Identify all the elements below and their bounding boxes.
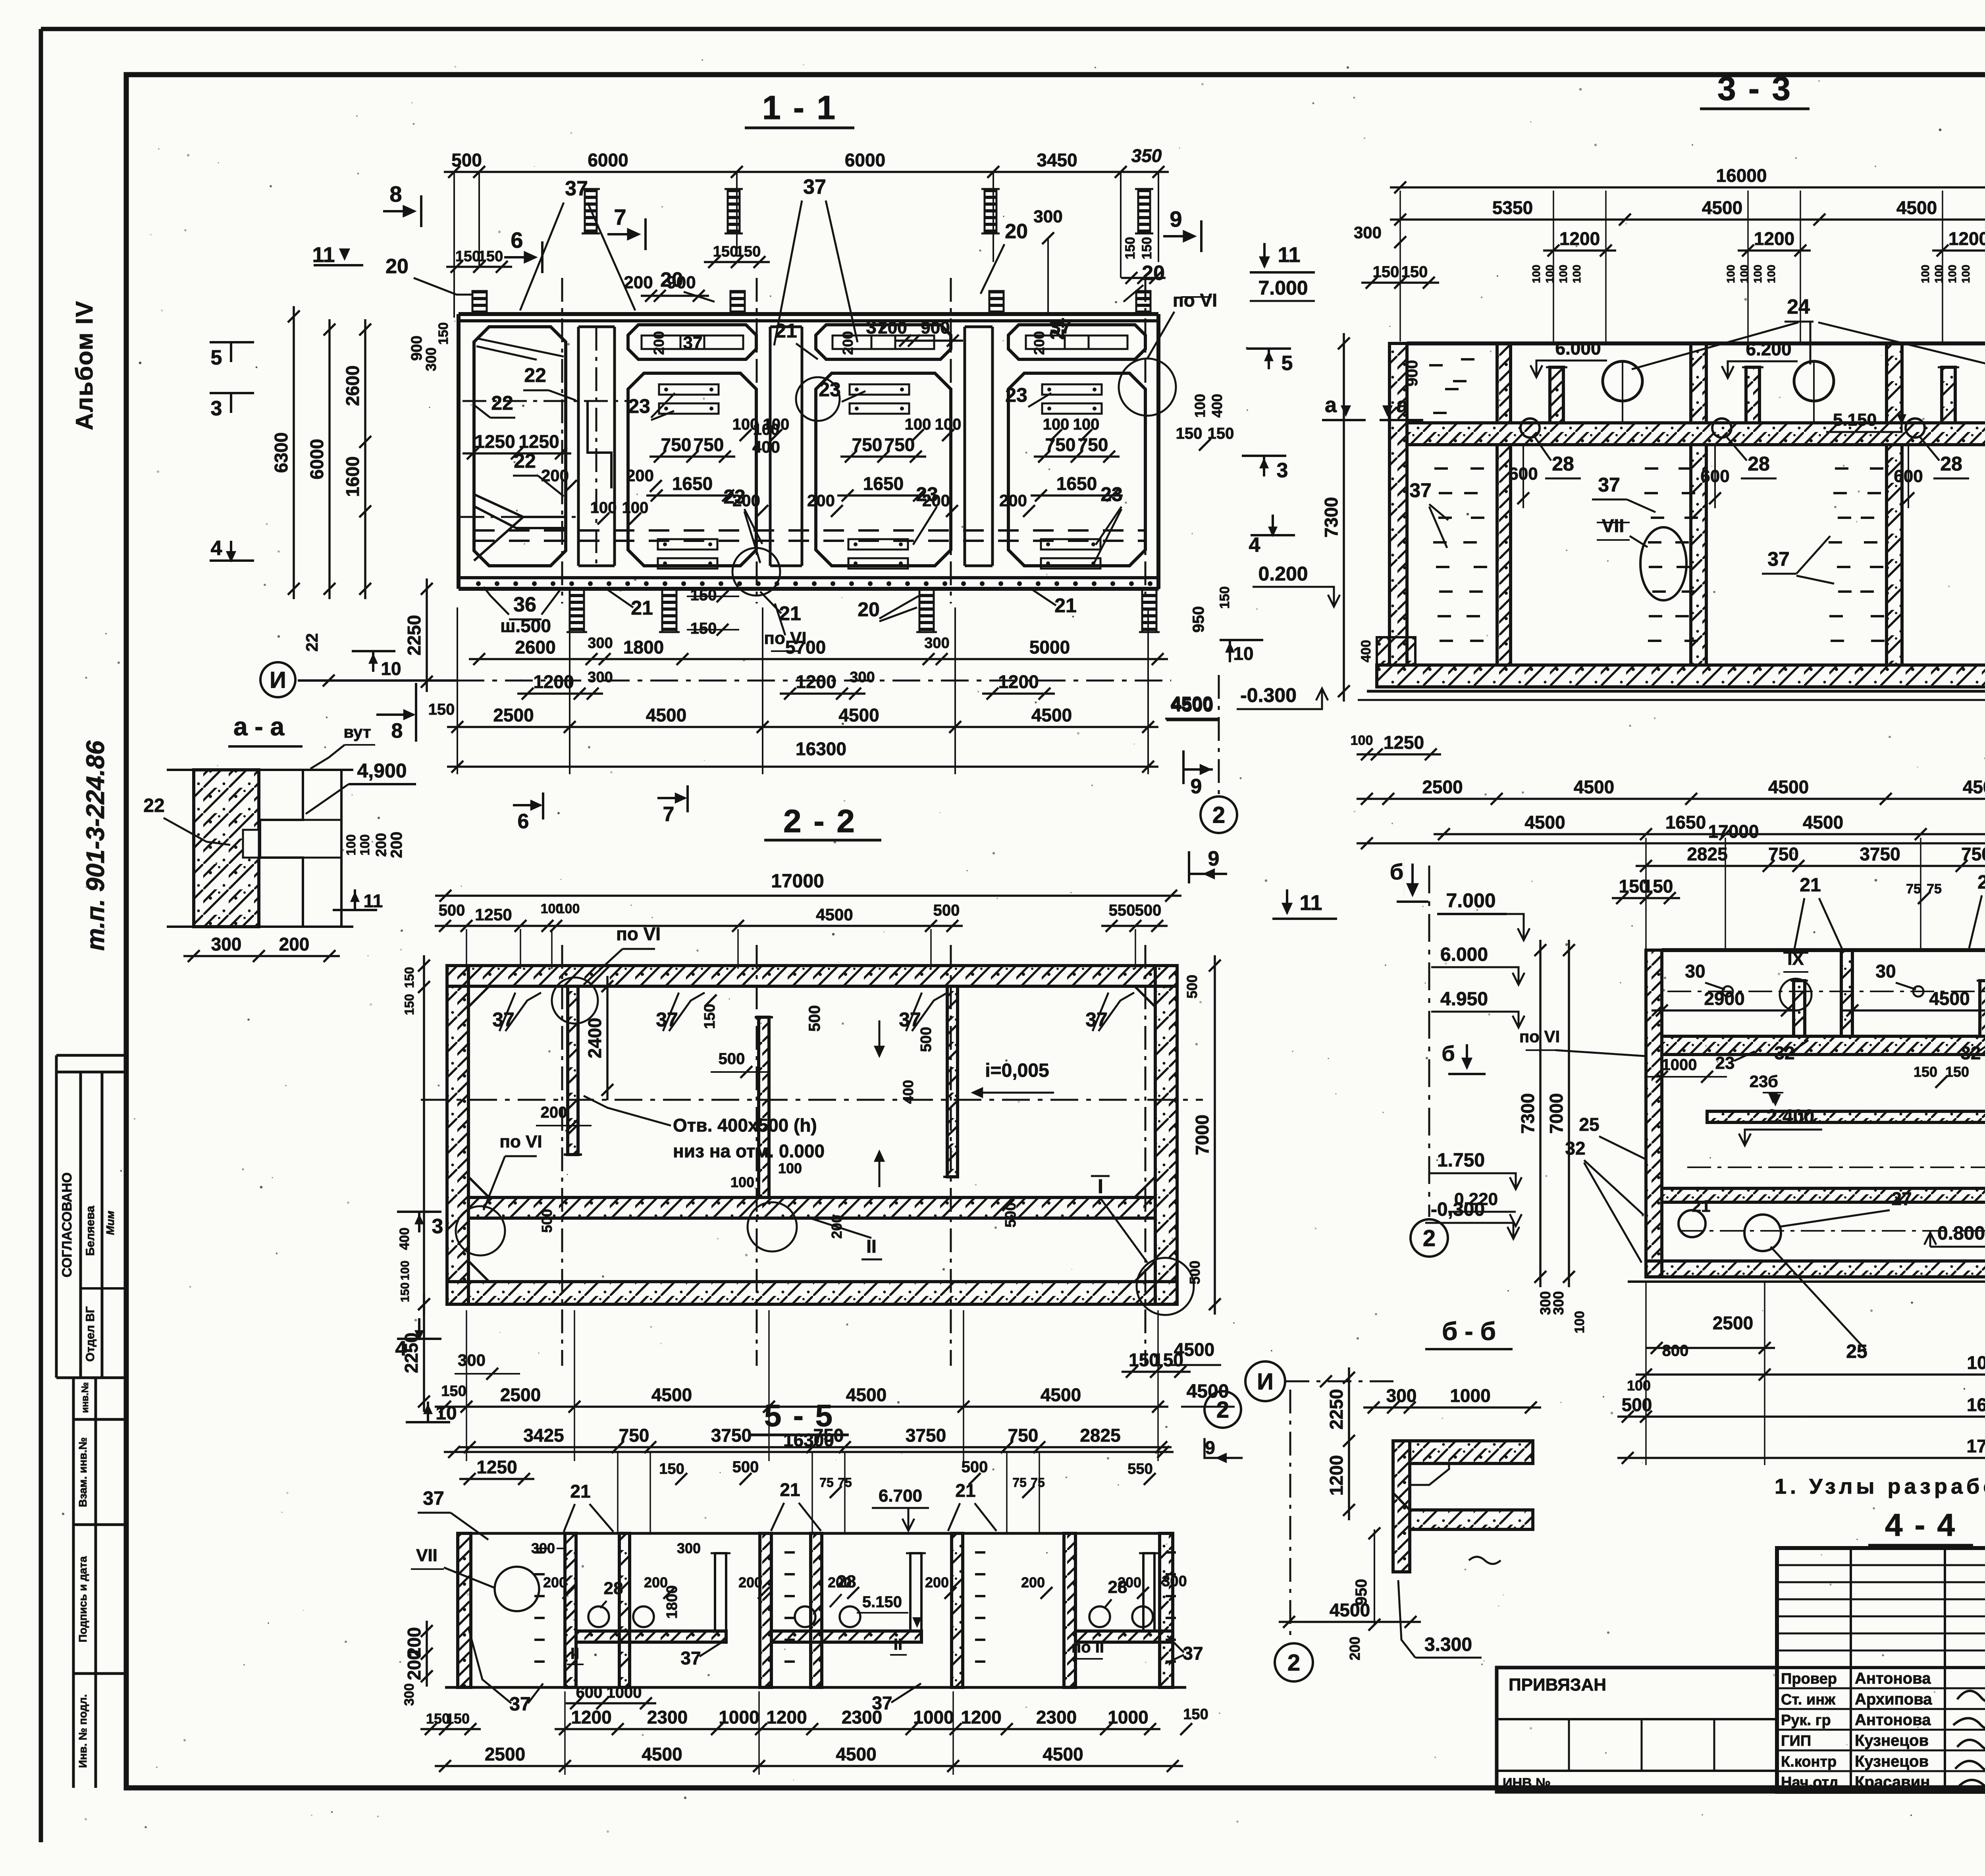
svg-text:200: 200	[925, 1574, 949, 1591]
svg-text:2825: 2825	[1687, 844, 1727, 864]
svg-text:7: 7	[663, 803, 675, 826]
svg-text:ГИП: ГИП	[1781, 1733, 1811, 1749]
section a-a formwork profile	[260, 770, 303, 927]
svg-text:7.000: 7.000	[1258, 277, 1308, 299]
section 4-4 lower circles	[1679, 1210, 1706, 1237]
svg-text:1200: 1200	[1559, 228, 1600, 249]
svg-text:550: 550	[1127, 1461, 1152, 1477]
svg-text:а - а: а - а	[233, 712, 284, 741]
svg-text:б: б	[1442, 1042, 1455, 1066]
svg-text:6: 6	[511, 228, 523, 253]
compartment C1 octagon	[474, 327, 566, 566]
dim 4500 below	[1279, 1621, 1421, 1623]
svg-text:30: 30	[1875, 961, 1896, 981]
mark 9 lowest	[1188, 851, 1190, 883]
mid dims 750 1650 per compartment	[649, 455, 735, 458]
svg-text:17000: 17000	[1708, 821, 1759, 842]
svg-text:400: 400	[397, 1228, 412, 1250]
section 3-3 upper stubs	[1550, 367, 1563, 423]
svg-text:100: 100	[1765, 265, 1777, 283]
svg-text:100: 100	[1043, 416, 1070, 433]
svg-text:300: 300	[458, 1351, 486, 1369]
svg-text:Кузнецов: Кузнецов	[1855, 1753, 1929, 1770]
svg-text:6.000: 6.000	[1555, 338, 1601, 359]
svg-text:21: 21	[631, 597, 653, 619]
section 2-2 bottom right dims	[1122, 1371, 1191, 1373]
svg-text:1200: 1200	[533, 671, 574, 692]
svg-text:300: 300	[423, 347, 439, 371]
section 5-5 upstand walls	[715, 1553, 726, 1631]
svg-text:150: 150	[1139, 237, 1154, 260]
svg-text:21: 21	[775, 320, 797, 342]
svg-text:низ на отм. 0.000: низ на отм. 0.000	[673, 1141, 825, 1161]
svg-text:вут: вут	[343, 723, 371, 741]
axis bubble 2 left of 4-4	[1411, 1219, 1448, 1257]
svg-text:200: 200	[651, 331, 667, 355]
svg-text:150: 150	[1401, 263, 1428, 281]
svg-text:1000: 1000	[913, 1707, 954, 1728]
б section marks	[1463, 1059, 1471, 1068]
section 4-4 IX circle	[1780, 979, 1812, 1010]
section 4-4 left vdims	[1539, 940, 1542, 1287]
attachment box	[1497, 1668, 1777, 1792]
svg-text:2250: 2250	[404, 615, 424, 656]
svg-text:300: 300	[677, 1540, 701, 1556]
svg-text:1. Узлы разработаны на л: 1. Узлы разработаны на листе КЖ-17	[1775, 1475, 1985, 1498]
svg-text:4,900: 4,900	[357, 760, 407, 782]
svg-text:1800: 1800	[623, 637, 664, 657]
svg-text:1250: 1250	[474, 431, 515, 452]
left wall footing	[1377, 637, 1415, 665]
svg-text:300: 300	[1162, 1573, 1187, 1590]
svg-text:8: 8	[391, 719, 403, 742]
section 2-2 walls	[447, 966, 468, 1304]
section 3-3 water dashes lower chambers	[1434, 467, 1448, 470]
svg-text:3: 3	[211, 397, 222, 420]
svg-text:22: 22	[524, 364, 546, 386]
water level dashes	[474, 529, 1145, 532]
svg-text:150: 150	[441, 1383, 466, 1400]
svg-text:1200: 1200	[571, 1707, 611, 1728]
svg-text:600: 600	[576, 1684, 603, 1701]
svg-text:4: 4	[211, 537, 222, 560]
section b-b dims	[1363, 1406, 1541, 1409]
svg-text:1.750: 1.750	[1437, 1150, 1485, 1171]
svg-text:Ст. инж: Ст. инж	[1781, 1691, 1836, 1708]
svg-text:300: 300	[1386, 1385, 1417, 1406]
section 2-2 right vdims	[1214, 955, 1216, 1315]
svg-text:37: 37	[1598, 474, 1620, 496]
svg-text:500: 500	[1135, 902, 1162, 919]
svg-text:100: 100	[1571, 265, 1583, 283]
svg-text:23: 23	[1100, 483, 1123, 505]
svg-text:-0.300: -0.300	[1240, 684, 1297, 706]
svg-text:150: 150	[1914, 1064, 1937, 1080]
svg-text:23: 23	[1750, 1072, 1768, 1091]
svg-text:2500: 2500	[1422, 777, 1463, 797]
section 5-5 walls	[458, 1533, 471, 1687]
top edge inserts	[472, 291, 487, 314]
section 3-3 mid slab	[1407, 423, 1985, 445]
svg-text:2 - 2: 2 - 2	[783, 803, 856, 839]
section 4-4 upper chamber floor	[1662, 1036, 1985, 1055]
section a-a notch	[243, 830, 259, 858]
svg-text:150: 150	[428, 701, 455, 718]
svg-text:100: 100	[1192, 394, 1208, 418]
svg-text:2: 2	[1216, 1397, 1229, 1423]
section 2-2 inner corner chamfers	[468, 986, 489, 1007]
section 3-3 top dims	[1390, 186, 1985, 189]
compartment C2 trough	[628, 325, 756, 359]
svg-text:200: 200	[1347, 1637, 1363, 1660]
svg-text:1200: 1200	[1948, 228, 1985, 249]
svg-text:500: 500	[962, 1458, 988, 1476]
svg-text:а: а	[1325, 393, 1337, 417]
svg-text:4500: 4500	[1574, 777, 1614, 797]
svg-text:4500: 4500	[646, 705, 686, 725]
svg-text:21: 21	[1692, 1197, 1711, 1215]
section 3-3 left marks	[1342, 406, 1350, 415]
title block upper grid	[1777, 1564, 1985, 1566]
svg-text:150: 150	[736, 243, 761, 260]
svg-text:10: 10	[381, 658, 401, 679]
compartment C4 room	[1008, 373, 1145, 566]
svg-text:9: 9	[1208, 847, 1220, 870]
svg-text:3425: 3425	[523, 1425, 564, 1446]
svg-text:100: 100	[1572, 1311, 1587, 1334]
svg-text:б: б	[1768, 1072, 1778, 1091]
svg-text:200: 200	[626, 466, 654, 485]
svg-text:100: 100	[1557, 265, 1569, 283]
svg-text:100: 100	[730, 1174, 754, 1190]
svg-text:6000: 6000	[845, 150, 885, 170]
mark 9 lower	[1182, 750, 1185, 784]
svg-text:11: 11	[1299, 891, 1322, 915]
svg-text:0.200: 0.200	[1258, 563, 1308, 585]
svg-text:20: 20	[858, 598, 880, 621]
svg-text:200: 200	[541, 466, 569, 485]
svg-text:100: 100	[1351, 733, 1373, 748]
signature squiggles	[1957, 1686, 1985, 1702]
svg-text:21: 21	[1054, 594, 1077, 617]
svg-text:по VI: по VI	[1173, 290, 1217, 310]
svg-text:20: 20	[1005, 220, 1028, 243]
svg-text:21: 21	[779, 602, 801, 625]
svg-text:1 - 1: 1 - 1	[762, 89, 837, 126]
svg-text:500: 500	[1187, 1261, 1203, 1284]
svg-text:по II: по II	[1072, 1639, 1104, 1656]
svg-text:100: 100	[1627, 1377, 1651, 1394]
svg-text:Красавин: Красавин	[1855, 1774, 1930, 1791]
svg-text:4500: 4500	[846, 1384, 887, 1405]
section b-b wall	[1393, 1441, 1410, 1572]
compartment C2 room	[628, 373, 756, 566]
svg-text:300: 300	[1354, 223, 1382, 242]
svg-text:4500: 4500	[816, 905, 853, 924]
svg-text:5350: 5350	[1492, 197, 1533, 218]
section 2-2 axes	[561, 945, 563, 1366]
svg-text:100: 100	[778, 1160, 802, 1176]
svg-text:300: 300	[402, 1683, 417, 1706]
svg-text:8: 8	[389, 181, 402, 206]
bottom dimension chains	[469, 658, 1168, 660]
svg-text:100: 100	[905, 416, 931, 433]
svg-text:Рук. гр: Рук. гр	[1781, 1712, 1831, 1729]
section 4-4 bottom slab	[1646, 1261, 1985, 1277]
svg-text:2.400: 2.400	[1767, 1106, 1814, 1127]
svg-text:0,220: 0,220	[1454, 1190, 1498, 1209]
elevation strip between 1-1 and 3-3	[1163, 235, 1193, 237]
svg-text:500: 500	[933, 902, 960, 919]
svg-text:400: 400	[1209, 394, 1225, 418]
svg-text:4500: 4500	[1896, 197, 1937, 218]
svg-text:Кузнецов: Кузнецов	[1855, 1732, 1929, 1749]
svg-text:4500: 4500	[642, 1744, 682, 1764]
svg-text:150: 150	[436, 322, 451, 345]
section 3-3 VII oval	[1640, 527, 1686, 600]
svg-text:750: 750	[1961, 844, 1985, 864]
svg-text:300: 300	[1550, 1291, 1567, 1315]
svg-text:28: 28	[1552, 453, 1574, 475]
svg-text:4500: 4500	[1702, 197, 1742, 218]
svg-text:21: 21	[780, 1479, 800, 1500]
section 4-4 body walls	[1646, 950, 1662, 1277]
svg-text:СОГЛАСОВАНО: СОГЛАСОВАНО	[60, 1172, 75, 1278]
svg-text:22: 22	[303, 633, 321, 652]
svg-text:5: 5	[211, 346, 222, 369]
section 3-3 small circles 28	[1521, 418, 1540, 438]
compartment C4 trough	[1008, 325, 1145, 359]
mounting plates	[659, 384, 719, 395]
svg-text:100: 100	[557, 901, 580, 916]
svg-text:1650: 1650	[672, 473, 713, 494]
bottom inserts	[570, 588, 584, 632]
svg-text:1000: 1000	[607, 1684, 642, 1701]
svg-text:300: 300	[924, 635, 949, 652]
section b-b chamfer	[1410, 1463, 1449, 1485]
svg-text:7000: 7000	[1192, 1114, 1212, 1155]
svg-text:Инв. № подл.: Инв. № подл.	[77, 1694, 89, 1768]
svg-text:Взам. инв.№: Взам. инв.№	[77, 1437, 89, 1507]
svg-text:150: 150	[455, 248, 480, 265]
svg-text:11: 11	[312, 243, 335, 267]
mid dims 1250	[463, 452, 571, 455]
svg-text:25: 25	[1579, 1114, 1599, 1135]
svg-text:Отдел ВГ: Отдел ВГ	[84, 1306, 97, 1361]
svg-text:2300: 2300	[1036, 1707, 1077, 1728]
svg-text:75: 75	[819, 1475, 834, 1490]
section b-b lower slab	[1410, 1510, 1533, 1529]
svg-text:300: 300	[531, 1540, 555, 1556]
svg-text:1200: 1200	[796, 671, 836, 692]
svg-text:ПРИВЯЗАН: ПРИВЯЗАН	[1509, 1675, 1606, 1695]
section 1-1 body outline	[459, 312, 1158, 316]
section 4-4 middle slab	[1707, 1111, 1985, 1122]
channel cell	[577, 327, 580, 566]
mark 4	[1251, 534, 1295, 536]
svg-text:300: 300	[850, 669, 875, 686]
svg-text:32: 32	[1774, 1043, 1794, 1063]
svg-text:500: 500	[451, 150, 482, 170]
svg-text:400: 400	[900, 1080, 916, 1104]
svg-text:9: 9	[1205, 1437, 1215, 1458]
svg-text:150: 150	[713, 243, 738, 260]
section a-a mark 11	[333, 909, 377, 911]
svg-text:37: 37	[1183, 1643, 1203, 1664]
svg-text:200: 200	[279, 934, 310, 954]
svg-text:150: 150	[402, 967, 416, 988]
svg-text:16300: 16300	[796, 738, 846, 759]
svg-text:21: 21	[1977, 872, 1985, 893]
svg-text:7.000: 7.000	[1446, 889, 1495, 912]
section 1-1 left vertical dims	[293, 306, 295, 599]
section 2-2 left marks	[397, 1211, 441, 1213]
svg-text:2600: 2600	[515, 637, 555, 657]
section a-a wall	[194, 770, 259, 927]
svg-text:200: 200	[404, 1650, 424, 1680]
section 5-5 floor slabs	[576, 1631, 726, 1642]
section 5-5 28 circles	[588, 1606, 609, 1627]
svg-text:20: 20	[1142, 262, 1165, 285]
svg-text:по VI: по VI	[1519, 1027, 1560, 1046]
svg-text:4500: 4500	[836, 1744, 876, 1764]
axis dashdot through C1	[463, 400, 631, 402]
svg-text:150: 150	[690, 620, 717, 637]
svg-text:2500: 2500	[500, 1384, 541, 1405]
svg-text:200: 200	[541, 1104, 567, 1121]
svg-text:7300: 7300	[1321, 497, 1341, 538]
svg-text:4500: 4500	[1524, 812, 1565, 833]
svg-text:4500: 4500	[1043, 1744, 1083, 1764]
svg-text:300: 300	[588, 669, 613, 686]
svg-text:37: 37	[680, 1648, 701, 1668]
svg-text:1200: 1200	[766, 1707, 807, 1728]
svg-text:500: 500	[918, 1027, 935, 1052]
section cut marks top	[383, 210, 412, 212]
section 2-2 stubs	[568, 986, 578, 1155]
svg-text:4500: 4500	[651, 1384, 692, 1405]
svg-text:500: 500	[732, 1458, 759, 1476]
svg-text:200: 200	[1021, 1574, 1045, 1591]
svg-text:750: 750	[852, 434, 883, 455]
svg-text:200: 200	[1031, 331, 1047, 355]
svg-text:150: 150	[399, 1282, 412, 1302]
svg-text:3750: 3750	[906, 1425, 946, 1446]
svg-text:150: 150	[1945, 1064, 1969, 1080]
section 5-5 left dims	[426, 1621, 428, 1687]
svg-text:200: 200	[624, 273, 653, 292]
svg-text:25: 25	[1846, 1341, 1867, 1362]
svg-text:200: 200	[388, 832, 405, 858]
svg-text:17000: 17000	[771, 871, 824, 892]
compartment C3 room	[816, 373, 951, 566]
svg-text:4500: 4500	[1963, 777, 1985, 797]
svg-text:3 - 3: 3 - 3	[1717, 70, 1792, 107]
svg-text:200: 200	[807, 491, 835, 510]
svg-text:150: 150	[701, 1004, 718, 1029]
section 3-3 water dashes upper	[1429, 364, 1443, 366]
svg-text:1650: 1650	[1056, 473, 1097, 494]
axis И bubble near b-b	[1245, 1361, 1285, 1401]
svg-text:100: 100	[590, 499, 617, 517]
svg-text:б - б: б - б	[1442, 1317, 1496, 1346]
svg-text:4500: 4500	[1031, 705, 1072, 725]
svg-text:750: 750	[813, 1425, 844, 1446]
svg-text:100: 100	[344, 834, 358, 855]
svg-text:100: 100	[1725, 265, 1737, 283]
svg-text:11: 11	[1278, 243, 1300, 267]
svg-text:4500: 4500	[838, 705, 879, 725]
left section marks 5 3 4	[210, 341, 254, 343]
svg-text:VII: VII	[416, 1546, 437, 1565]
svg-text:1250: 1250	[475, 905, 512, 924]
svg-text:6000: 6000	[588, 150, 628, 170]
svg-text:2: 2	[1212, 802, 1225, 828]
svg-text:24: 24	[1787, 295, 1810, 318]
svg-text:1650: 1650	[1665, 812, 1706, 833]
svg-text:21: 21	[1046, 318, 1068, 340]
svg-text:200: 200	[732, 491, 760, 510]
compartment C3 trough	[816, 325, 951, 359]
svg-text:4.950: 4.950	[1440, 989, 1488, 1010]
svg-text:500: 500	[719, 1050, 745, 1068]
svg-text:100: 100	[1960, 265, 1972, 283]
svg-text:300: 300	[588, 635, 613, 652]
svg-text:22: 22	[143, 795, 164, 816]
section b-b top slab	[1410, 1441, 1533, 1463]
svg-text:Беляева: Беляева	[84, 1206, 97, 1256]
svg-text:К.контр: К.контр	[1781, 1753, 1837, 1770]
svg-text:750: 750	[619, 1425, 649, 1446]
svg-text:400: 400	[1359, 640, 1374, 663]
svg-text:0.800: 0.800	[1937, 1223, 1985, 1244]
svg-text:150: 150	[478, 248, 503, 265]
svg-text:Мим: Мим	[104, 1211, 116, 1235]
section 3-3 top edge	[1407, 341, 1985, 345]
axis И bubble	[260, 662, 295, 697]
svg-text:350: 350	[1131, 145, 1162, 166]
svg-text:750: 750	[661, 434, 692, 455]
svg-text:20: 20	[385, 255, 409, 278]
svg-text:11: 11	[364, 891, 383, 911]
svg-text:1200: 1200	[1326, 1455, 1347, 1496]
svg-text:21: 21	[1800, 875, 1821, 896]
svg-text:1250: 1250	[518, 431, 559, 452]
svg-text:ш.500: ш.500	[500, 615, 551, 636]
svg-text:3750: 3750	[1860, 844, 1900, 864]
svg-text:37: 37	[866, 317, 887, 338]
svg-text:1250: 1250	[476, 1457, 517, 1477]
section 5-5 top line	[458, 1532, 1173, 1535]
top dimension chain	[444, 171, 1169, 173]
section 3-3 walls	[1389, 343, 1407, 665]
svg-text:4500: 4500	[1330, 1600, 1370, 1620]
svg-text:22: 22	[491, 392, 513, 414]
section 2-2 inner dims	[606, 976, 609, 1100]
svg-text:Нач.отд: Нач.отд	[1781, 1774, 1839, 1791]
section 4-4 lower level lines	[1687, 1166, 1985, 1168]
section 3-3 pipe circles 24	[1603, 361, 1642, 401]
section 4-4 lower slab	[1662, 1188, 1985, 1202]
svg-text:i=0,005: i=0,005	[985, 1060, 1049, 1081]
svg-text:Альбом IV: Альбом IV	[71, 301, 98, 430]
title block outer	[1777, 1548, 1985, 1792]
svg-text:23: 23	[1715, 1053, 1735, 1073]
section 5-5 top dims	[459, 1446, 1172, 1448]
svg-text:7000: 7000	[1546, 1093, 1567, 1134]
svg-text:4500: 4500	[1768, 777, 1809, 797]
section 5-5 VII circle	[495, 1567, 539, 1611]
